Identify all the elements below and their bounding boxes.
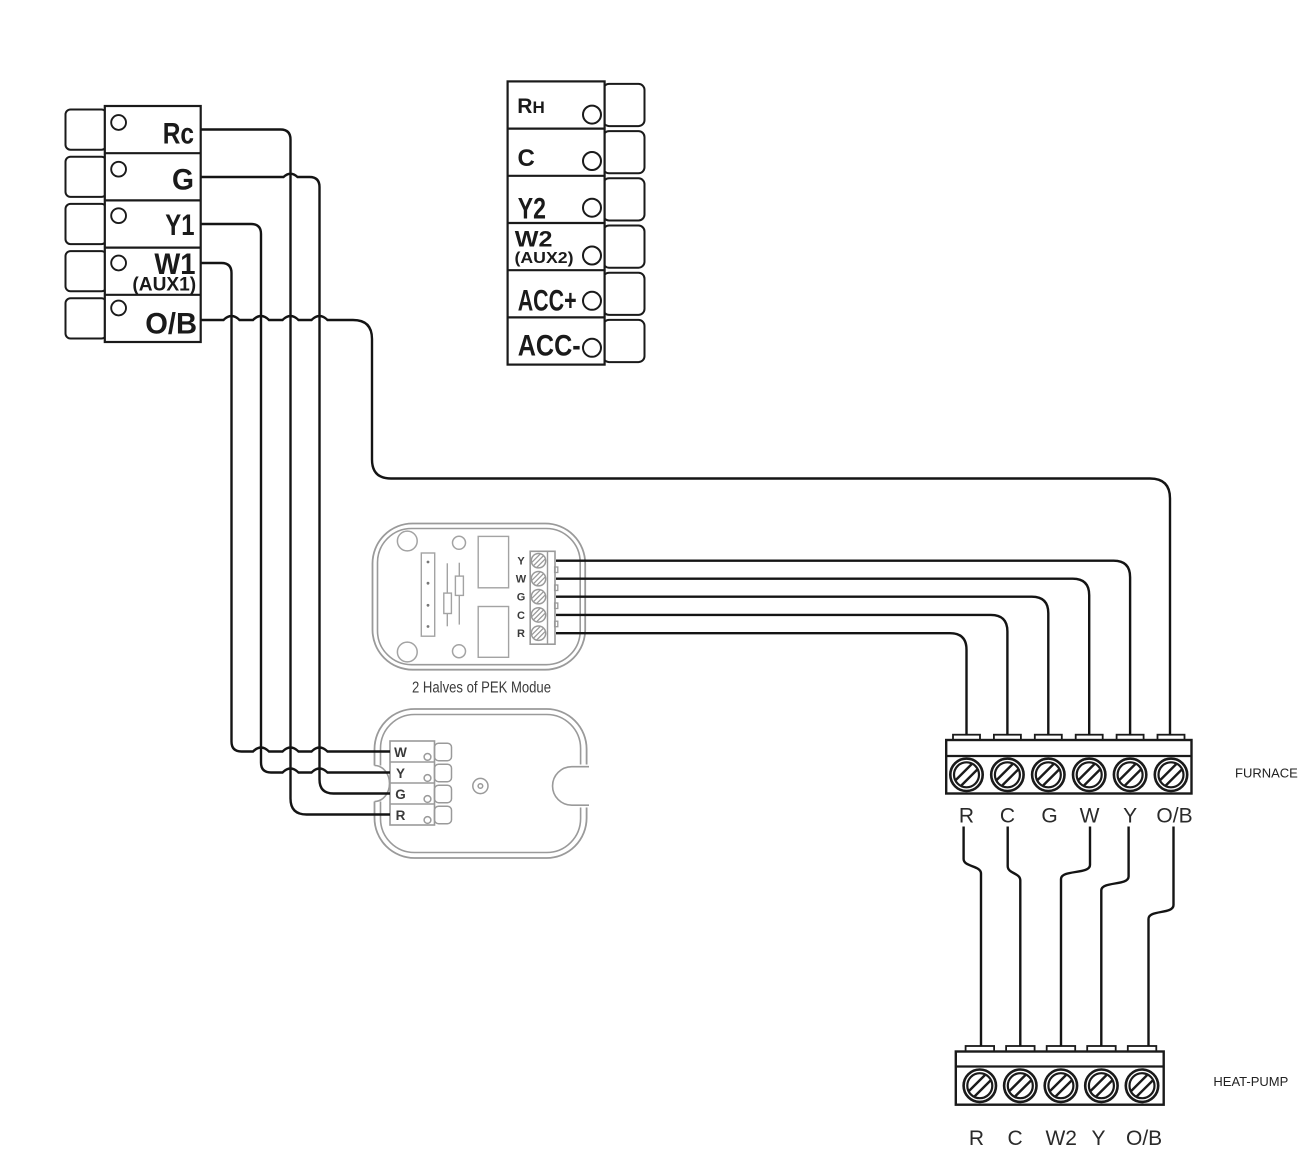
svg-text:O/B: O/B bbox=[1126, 1127, 1162, 1150]
svg-text:G: G bbox=[395, 787, 406, 802]
screw hole C bbox=[583, 152, 601, 170]
wire PEK G to furnace G bbox=[556, 597, 1048, 736]
tab ACC+ bbox=[603, 273, 645, 315]
wire PEK W to furnace W bbox=[556, 579, 1089, 736]
svg-text:W2: W2 bbox=[1045, 1127, 1077, 1150]
left thermostat terminal block bbox=[66, 106, 201, 342]
PEK screw C bbox=[531, 608, 545, 622]
tab O/B bbox=[1128, 1046, 1157, 1052]
tab Rc bbox=[66, 110, 107, 150]
furnace screw W bbox=[1073, 759, 1105, 791]
component block lower bbox=[478, 607, 508, 658]
wire furnace Y to heat pump Y bbox=[1101, 827, 1128, 1047]
heat pump screw W2 bbox=[1045, 1070, 1077, 1102]
tab W2 bbox=[1047, 1046, 1076, 1052]
wire Y1 to PEK Y bbox=[202, 224, 391, 773]
heat pump screw Y bbox=[1085, 1070, 1117, 1102]
mounting hole top-left bbox=[397, 531, 417, 551]
svg-text:C: C bbox=[1008, 1127, 1023, 1150]
screw hole W2 bbox=[583, 247, 601, 265]
wire G to PEK G bbox=[202, 174, 391, 794]
svg-text:O/B: O/B bbox=[145, 307, 197, 340]
screw hole ACC+ bbox=[583, 292, 601, 310]
tab G bbox=[66, 157, 107, 197]
tab G bbox=[435, 785, 452, 803]
svg-text:W2: W2 bbox=[515, 227, 553, 252]
notch right eraser bbox=[553, 765, 590, 808]
screw hole G bbox=[111, 162, 126, 177]
svg-text:G: G bbox=[172, 164, 194, 197]
heat pump screw O/B bbox=[1126, 1070, 1158, 1102]
right block body bbox=[508, 81, 605, 364]
screw hole Rh bbox=[583, 106, 601, 124]
tab W bbox=[435, 743, 452, 761]
svg-text:W: W bbox=[1080, 805, 1100, 828]
furnace screw Y bbox=[1114, 759, 1146, 791]
tab Y bbox=[1117, 735, 1144, 741]
tab W bbox=[1076, 735, 1103, 741]
svg-text:G: G bbox=[1041, 805, 1057, 828]
PEK screw G bbox=[531, 590, 545, 604]
wire furnace R to heat pump R bbox=[964, 827, 981, 1047]
hole bottom-middle bbox=[453, 645, 466, 658]
heat pump screw C bbox=[1004, 1070, 1036, 1102]
tab O/B bbox=[66, 298, 107, 338]
svg-text:Y1: Y1 bbox=[165, 209, 194, 242]
svg-text:C: C bbox=[1000, 805, 1015, 828]
tab Rh bbox=[603, 84, 645, 126]
hole Y bbox=[424, 775, 431, 782]
svg-text:RH: RH bbox=[517, 95, 544, 118]
pin header strip bbox=[421, 553, 434, 636]
heat pump screw R bbox=[964, 1070, 996, 1102]
PEK screw R bbox=[531, 626, 545, 640]
wire PEK C to furnace C bbox=[556, 615, 1007, 736]
furnace screw O/B bbox=[1155, 759, 1187, 791]
heat pump terminal strip bbox=[956, 1046, 1164, 1105]
svg-text:Rc: Rc bbox=[163, 118, 194, 151]
furnace screw G bbox=[1032, 759, 1064, 791]
notch left bbox=[375, 766, 390, 802]
resistor R1 bbox=[446, 563, 448, 626]
tab R bbox=[953, 735, 980, 741]
svg-text:Y: Y bbox=[1123, 805, 1137, 828]
furnace terminal strip bbox=[946, 735, 1191, 794]
hole top-middle bbox=[453, 536, 466, 549]
wire PEK R to furnace R bbox=[556, 633, 967, 735]
wire furnace W to heat pump W2 bbox=[1061, 827, 1090, 1047]
tab Y2 bbox=[603, 178, 645, 220]
furnace block body bbox=[946, 740, 1191, 794]
svg-text:W: W bbox=[394, 745, 407, 760]
svg-text:ACC+: ACC+ bbox=[518, 285, 577, 318]
svg-text:R: R bbox=[396, 808, 406, 823]
component block upper bbox=[478, 536, 508, 587]
svg-text:C: C bbox=[518, 145, 535, 172]
wire Rc to PEK R bbox=[202, 130, 391, 815]
wire PEK Y to furnace Y bbox=[556, 561, 1130, 736]
mounting hole bottom-left bbox=[397, 642, 417, 662]
screw hole Y1 bbox=[111, 208, 126, 223]
wire furnace O/B to heat pump O/B bbox=[1149, 827, 1174, 1047]
svg-text:Y: Y bbox=[517, 556, 525, 568]
tab ACC- bbox=[603, 320, 645, 362]
screw hole ACC- bbox=[583, 339, 601, 357]
tab W2 bbox=[603, 226, 645, 268]
hole W bbox=[424, 754, 431, 761]
svg-text:(AUX2): (AUX2) bbox=[515, 250, 574, 267]
screw hole Y2 bbox=[583, 199, 601, 217]
svg-text:G: G bbox=[517, 592, 526, 604]
PEK module top half bbox=[373, 524, 586, 670]
svg-text:ACC-: ACC- bbox=[518, 330, 581, 363]
tab C bbox=[1006, 1046, 1035, 1052]
svg-text:Y2: Y2 bbox=[518, 192, 546, 225]
tab R bbox=[435, 806, 452, 824]
notch left eraser bbox=[369, 766, 389, 802]
tab Y bbox=[1087, 1046, 1116, 1052]
svg-text:Y: Y bbox=[396, 766, 405, 781]
svg-text:W: W bbox=[516, 574, 527, 586]
hole G bbox=[424, 796, 431, 803]
PEK screw Y bbox=[531, 554, 545, 568]
wire furnace C to heat pump C bbox=[1008, 827, 1021, 1047]
right thermostat terminal block bbox=[508, 81, 645, 364]
left block body bbox=[105, 106, 201, 342]
svg-text:O/B: O/B bbox=[1156, 805, 1192, 828]
screw hole O/B bbox=[111, 301, 126, 316]
tab Y1 bbox=[66, 204, 107, 244]
tab C bbox=[994, 735, 1021, 741]
furnace screw C bbox=[991, 759, 1023, 791]
svg-text:R: R bbox=[969, 1127, 984, 1150]
tab W1 bbox=[66, 251, 107, 291]
tab R bbox=[966, 1046, 995, 1052]
tab Y bbox=[435, 764, 452, 782]
hole R bbox=[424, 817, 431, 824]
notch right bbox=[553, 767, 589, 806]
svg-text:R: R bbox=[517, 628, 525, 640]
PEK module bottom half bbox=[369, 709, 590, 858]
svg-text:2 Halves of PEK Modue: 2 Halves of PEK Modue bbox=[412, 680, 551, 697]
svg-text:FURNACE: FURNACE bbox=[1235, 766, 1298, 781]
tab C bbox=[603, 131, 645, 173]
PEK screw W bbox=[531, 572, 545, 586]
center screw boss bbox=[473, 778, 488, 793]
PEK bottom terminal block bbox=[390, 741, 435, 825]
svg-text:(AUX1): (AUX1) bbox=[132, 274, 196, 295]
svg-text:HEAT-PUMP: HEAT-PUMP bbox=[1213, 1074, 1288, 1089]
svg-text:Y: Y bbox=[1091, 1127, 1105, 1150]
tab O/B bbox=[1158, 735, 1185, 741]
screw hole Rc bbox=[111, 115, 126, 130]
screw hole W1 bbox=[111, 256, 126, 271]
tab G bbox=[1035, 735, 1062, 741]
resistor R2 bbox=[458, 563, 460, 625]
furnace screw R bbox=[950, 759, 982, 791]
heat pump block body bbox=[956, 1052, 1164, 1105]
svg-text:R: R bbox=[959, 805, 974, 828]
wire O/B to furnace O/B bbox=[202, 316, 1171, 736]
svg-text:C: C bbox=[517, 610, 525, 622]
wire W1 to PEK W bbox=[202, 263, 391, 752]
PEK top terminal block bbox=[530, 551, 555, 644]
